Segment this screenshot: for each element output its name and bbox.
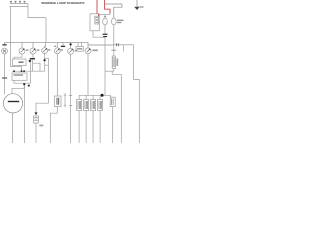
gauge G2 drop [32, 42, 34, 48]
stub y58 [45, 57, 49, 59]
wire black feed top [96, 0, 98, 14]
resistor R1 hatch [113, 58, 115, 66]
gauge G1 circle [19, 48, 25, 54]
connector J1 pin ticks [11, 3, 25, 4]
fuse F1 bar [2, 44, 6, 45]
lamp L1 [103, 18, 108, 25]
box C4 glyphs [85, 101, 87, 109]
gauge G1 label [26, 49, 29, 51]
wire C5 down [92, 111, 94, 144]
lamp L1 lead [104, 14, 106, 18]
gauge big needle bar [8, 101, 19, 102]
wire G2 lead down [32, 59, 34, 71]
wire C4 down [85, 111, 87, 144]
lamp L2 [112, 18, 117, 25]
gauge G5 drop [70, 42, 72, 48]
gauge G3 drop [45, 42, 46, 47]
alternator A1 circle [2, 48, 8, 54]
wire right feed across [28, 17, 46, 19]
wire right feed drop [45, 18, 47, 43]
gauge G3 needle [43, 49, 46, 52]
connector tick C2 [69, 96, 72, 106]
box B5 body [76, 47, 83, 52]
connector J1 pin labels [10, 1, 25, 3]
connector J1 top bar [10, 3, 28, 5]
rail y95 [79, 94, 111, 96]
wire B4 down jog [50, 107, 57, 144]
gauge G4 label [60, 49, 63, 51]
box B3 hatch [34, 117, 37, 120]
gauge G1 drop [21, 42, 23, 48]
gauge G5 needle [69, 50, 72, 53]
relay K1 element [95, 16, 99, 24]
wire alternator down [4, 54, 6, 95]
gauge G2 circle [30, 48, 36, 54]
capacitor CP bottom plate [103, 36, 107, 37]
box C6 glyphs [99, 101, 101, 109]
stub at x126 [123, 45, 125, 52]
terminal T1 bar [61, 46, 65, 47]
wire jog down right [112, 71, 121, 143]
gauge G3 circle [42, 48, 48, 54]
gauge big circle (speedometer) [3, 94, 22, 113]
box B5 text [77, 48, 82, 50]
box B3 hatched [34, 116, 39, 123]
junction dot n2 [23, 70, 25, 72]
gauge G6 drop [87, 45, 89, 48]
wire C6 down [99, 111, 101, 144]
gauge G2 label [37, 49, 40, 51]
box B5 [78, 42, 82, 46]
wire jog to x141 [134, 80, 140, 144]
box C5 [91, 100, 96, 111]
box C7 [110, 97, 115, 106]
connector tick C1 [2, 77, 7, 79]
bus step down [88, 42, 113, 45]
wire C3 down [78, 111, 80, 144]
box B2 sender [12, 73, 27, 80]
connector J1 bottom bar [10, 6, 29, 8]
stub y65 [45, 64, 49, 66]
capacitor plate P1 [32, 54, 34, 58]
fuse F1 lead [4, 42, 6, 44]
lamp L1 socket [104, 15, 106, 17]
bus main rail [5, 41, 89, 43]
gauge G2 needle [32, 50, 35, 53]
alternator A1 cross [3, 50, 6, 53]
wire right feed down [27, 7, 29, 18]
ground GND1 lead [136, 0, 138, 7]
relay K1 box [90, 14, 99, 31]
junction dot n6 [70, 43, 72, 45]
wire G6 down [87, 54, 89, 95]
rail tick d1 [78, 95, 80, 99]
gauge G5 label [75, 50, 78, 52]
wire long down x24.5 [24, 85, 26, 143]
wire link y14 [99, 13, 110, 15]
wire R1 down [113, 69, 115, 72]
junction dot n1 [13, 70, 15, 72]
wire jog into big gauge [12, 85, 24, 94]
lamp L1 lead down [104, 25, 106, 34]
gauge G6 needle [87, 50, 90, 53]
wire right down x136 [133, 45, 135, 80]
gauge G3 label [48, 49, 51, 51]
connector pin x65 [64, 93, 66, 108]
wire G4 down [56, 54, 58, 96]
box B1 [13, 59, 27, 66]
box C3 glyphs [78, 101, 80, 109]
wire x30.5 down [30, 62, 32, 84]
wire relay out [93, 31, 105, 37]
gauge needle tips [23, 49, 90, 50]
box B3 label [39, 125, 43, 127]
wire black top link [105, 4, 122, 18]
wire R1 lead [113, 45, 115, 56]
ground GND1 label [140, 6, 144, 8]
rail tick d3 [92, 95, 94, 99]
box C4 [84, 100, 89, 111]
gauge G6 circle [85, 48, 91, 54]
wire left feed down [10, 7, 12, 67]
gauge G4 needle [56, 49, 59, 52]
junction dot n3b [28, 85, 30, 87]
wire G1 to box [14, 54, 22, 59]
relay K1 red tap [98, 14, 100, 16]
node line y83 [14, 82, 31, 84]
relay K1 hatch [95, 18, 98, 23]
rail tick d4 [99, 95, 101, 99]
wire corner to x36 [36, 103, 48, 112]
wire cap down long [104, 37, 106, 95]
svg-text:WARNING LAMP SCHEMATIC: WARNING LAMP SCHEMATIC [41, 1, 85, 5]
box C7 glyphs [112, 99, 114, 106]
wire L2 down [113, 25, 115, 45]
lamp L2 label [117, 20, 124, 22]
box B2 text [14, 74, 24, 76]
resistor R1 body [112, 56, 115, 69]
junction dot n5 [44, 59, 46, 61]
wire G3 lead [44, 54, 46, 72]
wire B2 left lead down [13, 80, 15, 83]
arrow A2 [35, 112, 38, 115]
connector inline ticks [117, 43, 119, 46]
wire node y71 right [105, 70, 112, 72]
resistor R1 tick [111, 49, 116, 51]
gauge G4 drop [56, 42, 58, 48]
gauge G4 circle [54, 48, 60, 54]
terminal T1 drop [62, 42, 64, 45]
ground GND1 symbol [134, 7, 140, 10]
gauge G4 pre label [54, 46, 56, 47]
capacitor bar [30, 58, 35, 59]
lamp L2 label2 [117, 22, 122, 23]
wire red feed 1 [105, 0, 110, 14]
box B4 glyphs [57, 98, 59, 105]
box C6 [98, 100, 103, 111]
junction dot n7 [101, 94, 104, 97]
gauge G1 needle [21, 50, 24, 53]
wire x48 long down [47, 58, 49, 103]
resistor R1 label [116, 59, 118, 67]
junction dot n2b [21, 70, 23, 72]
capacitor CP top plate [103, 34, 108, 35]
wire jog y63 [33, 63, 40, 71]
bus continues right [113, 44, 133, 46]
wire B3 down [35, 123, 37, 143]
wire left feed corner to node [11, 67, 22, 72]
box B1 text [19, 61, 24, 63]
junction dot n3 [23, 83, 25, 85]
wire G5 long down [70, 54, 72, 143]
wire big gauge down [12, 113, 14, 143]
gauge G5 circle [68, 48, 74, 54]
rail step to box5 [111, 95, 113, 97]
connector J1 right edge [27, 4, 29, 7]
box C3 [77, 100, 82, 111]
wire C7 down [112, 107, 114, 144]
gauge G6 label [92, 50, 98, 52]
box B4 connector [54, 96, 61, 107]
node line y71 [12, 70, 45, 72]
box C5 glyphs [92, 101, 94, 109]
junction dot n4 [29, 60, 32, 63]
rail tick d2 [85, 95, 87, 99]
